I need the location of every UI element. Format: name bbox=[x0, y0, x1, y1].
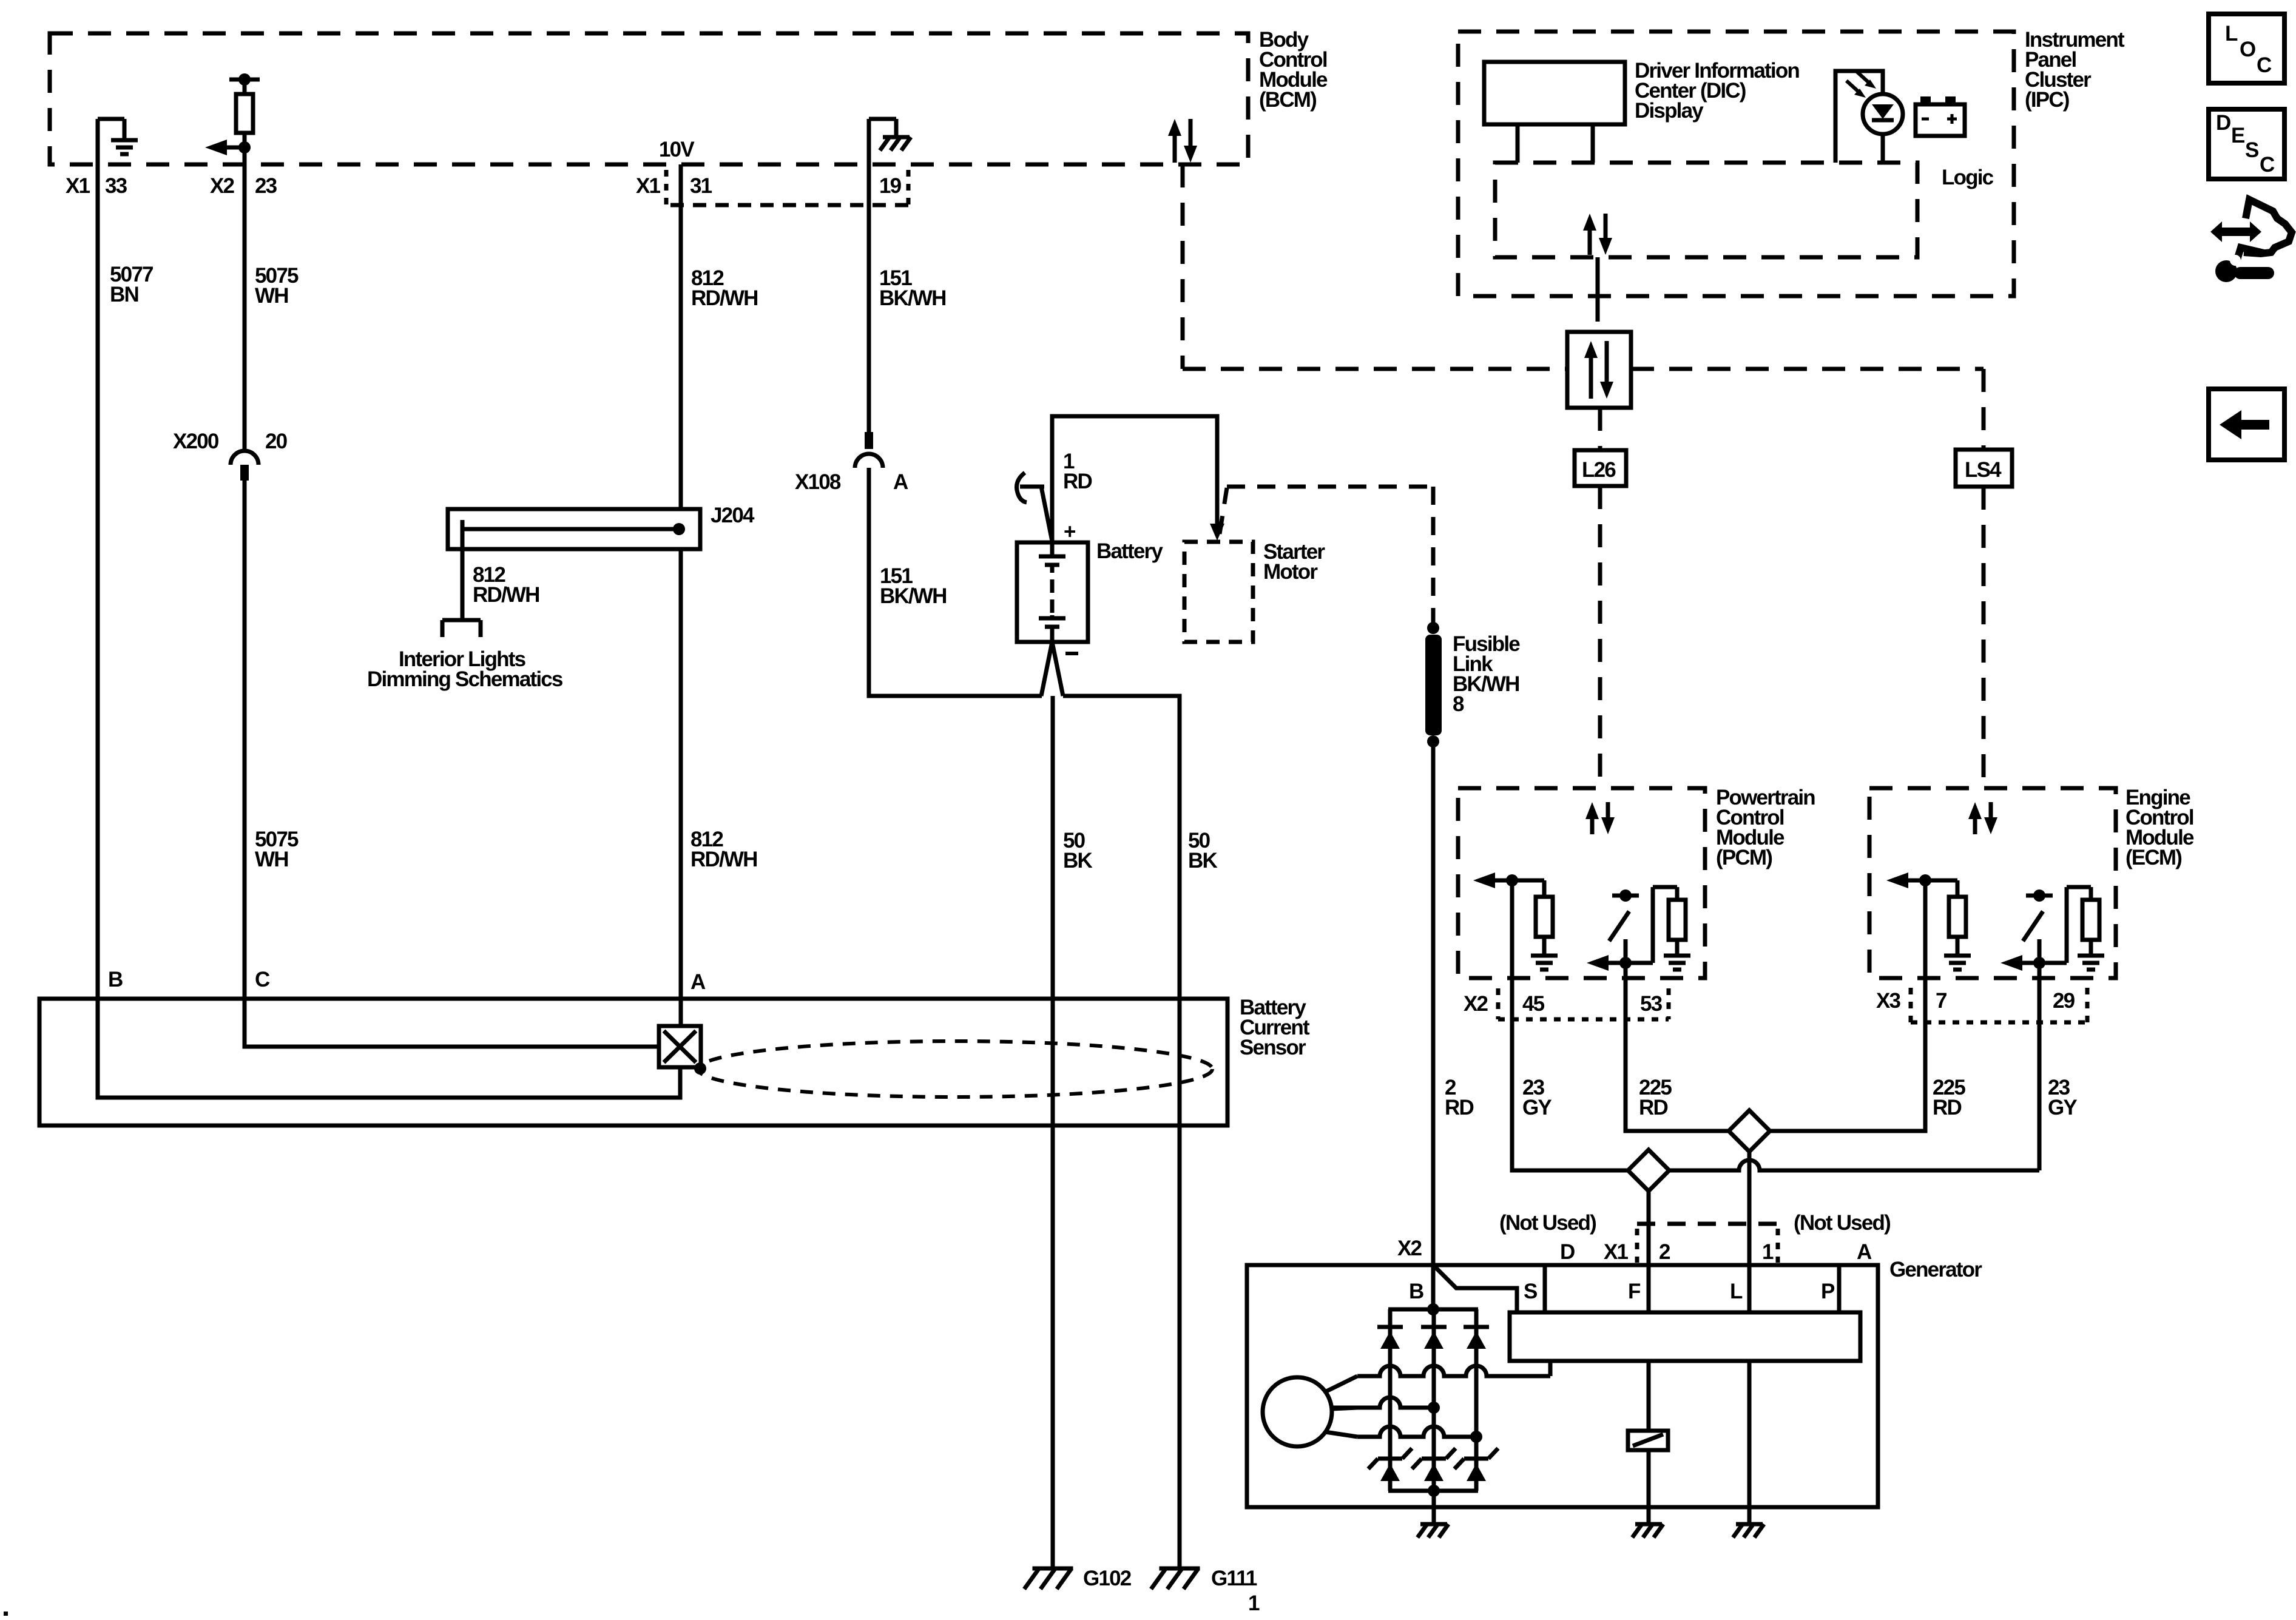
pin label 1 bbox=[1762, 1240, 1774, 1264]
Powertrain Control Module (PCM) dashed outline bbox=[1458, 788, 1705, 978]
svg-text:D: D bbox=[2216, 111, 2230, 135]
svg-text:B: B bbox=[108, 968, 123, 991]
wire 23 GY (ECM 29) bbox=[1667, 978, 2039, 1170]
PCM pin 45 driver (resistor to ground) bbox=[1473, 872, 1558, 978]
page corner mark bbox=[4, 1612, 8, 1616]
terminal P bbox=[1821, 1280, 1835, 1303]
pin label X3 bbox=[1876, 989, 1901, 1013]
svg-text:G102: G102 bbox=[1083, 1567, 1132, 1590]
wire 151 BK/WH (BCM pin19 to X108) bbox=[867, 164, 871, 432]
terminal F bbox=[1628, 1280, 1641, 1303]
sensor clamp dashed ellipse bbox=[698, 1041, 1212, 1097]
upper diode 3 bbox=[1464, 1325, 1489, 1329]
dashed wire L26 to PCM bbox=[1598, 486, 1602, 788]
svg-text:BN: BN bbox=[110, 283, 138, 306]
rotor bbox=[1263, 1377, 1332, 1446]
PCM pin 53 switch driver bbox=[1587, 887, 1690, 978]
label 50 BK left bbox=[1063, 829, 1092, 872]
svg-text:8: 8 bbox=[1453, 692, 1464, 716]
svg-text:(BCM): (BCM) bbox=[1259, 88, 1316, 112]
serial data gateway box bbox=[1567, 332, 1631, 408]
upper diode 2 bbox=[1421, 1325, 1447, 1329]
pin label 29 bbox=[2053, 989, 2075, 1013]
ground G111 bbox=[1151, 1568, 1200, 1589]
wire 151 BK/WH lower (X108 to battery negative) bbox=[869, 468, 1042, 696]
pin label X2 (generator B) bbox=[1397, 1237, 1422, 1260]
hall sensor element (box with X) bbox=[659, 1026, 706, 1075]
svg-text:E: E bbox=[2231, 124, 2244, 147]
IPC label bbox=[2025, 28, 2125, 112]
svg-text:(PCM): (PCM) bbox=[1716, 846, 1772, 869]
svg-text:RD/WH: RD/WH bbox=[691, 286, 758, 310]
label 50 BK right bbox=[1188, 829, 1217, 872]
internal B to S link bbox=[1433, 1265, 1517, 1312]
svg-text:19: 19 bbox=[879, 174, 902, 198]
svg-text:Generator: Generator bbox=[1889, 1258, 1982, 1281]
label 5077 BN bbox=[110, 263, 153, 306]
BCM internal ground at pin X1-33 bbox=[98, 119, 138, 166]
lower diode 3 bbox=[1464, 1457, 1488, 1461]
stator winding phase middle bbox=[1331, 1397, 1440, 1414]
svg-text:BK/WH: BK/WH bbox=[880, 584, 947, 608]
IPC serial data arrows bbox=[1583, 214, 1612, 255]
svg-text:WH: WH bbox=[255, 848, 288, 871]
svg-text:C: C bbox=[2257, 53, 2272, 77]
Generator label bbox=[1889, 1258, 1982, 1281]
lower diode 1 bbox=[1378, 1457, 1402, 1461]
label 812 RD/WH upper bbox=[691, 266, 758, 310]
label X200 bbox=[173, 430, 219, 453]
label G102 bbox=[1083, 1567, 1132, 1590]
svg-text:C: C bbox=[2260, 153, 2275, 177]
wire F to ground bbox=[1647, 1450, 1651, 1523]
dashed wire gateway to L26 bbox=[1598, 408, 1602, 450]
svg-text:A: A bbox=[1857, 1240, 1872, 1264]
wire F (lower diamond to generator F) bbox=[1647, 1189, 1651, 1312]
lower diode 2 bbox=[1422, 1457, 1446, 1461]
ECM serial data arrows bbox=[1968, 802, 1997, 834]
splice pack J204 bbox=[448, 509, 700, 549]
svg-text:WH: WH bbox=[255, 284, 288, 308]
battery negative clamp bbox=[1041, 642, 1063, 696]
svg-text:10V: 10V bbox=[659, 138, 695, 161]
svg-text:2: 2 bbox=[1659, 1240, 1670, 1264]
terminal S bbox=[1524, 1280, 1537, 1303]
svg-text:(Not Used): (Not Used) bbox=[1499, 1211, 1596, 1235]
label 225 RD (ECM) bbox=[1933, 1076, 1965, 1119]
upper diode 1 bbox=[1377, 1325, 1403, 1329]
generator L chassis ground bbox=[1736, 1522, 1763, 1527]
BCM internal chassis ground at pin 19 bbox=[869, 119, 911, 166]
svg-text:C: C bbox=[255, 968, 270, 991]
label 2 RD bbox=[1445, 1076, 1473, 1119]
BCM X1 connector dotted outline (pins 31/19) bbox=[666, 170, 908, 205]
svg-text:Logic: Logic bbox=[1942, 166, 1994, 189]
label - (battery negative) bbox=[1065, 652, 1078, 655]
pin label 19 bbox=[879, 174, 902, 198]
svg-text:A: A bbox=[690, 970, 706, 994]
label A (X108) bbox=[893, 470, 908, 494]
label 10V bbox=[659, 138, 695, 161]
svg-text:33: 33 bbox=[105, 174, 127, 198]
svg-text:+: + bbox=[1064, 520, 1076, 544]
DIC label bbox=[1635, 59, 1799, 123]
rotor lead middle bbox=[1332, 1408, 1357, 1409]
svg-text:31: 31 bbox=[690, 174, 712, 198]
svg-text:RD: RD bbox=[1445, 1096, 1473, 1119]
dashed wire LS4 to ECM bbox=[1982, 487, 1986, 788]
svg-text:1: 1 bbox=[1248, 1591, 1260, 1615]
wire stator to ground bbox=[1432, 1491, 1436, 1523]
wire L inside generator bbox=[1747, 1361, 1752, 1523]
svg-text:GY: GY bbox=[1522, 1096, 1551, 1119]
svg-text:L26: L26 bbox=[1582, 458, 1616, 482]
svg-text:X200: X200 bbox=[173, 430, 219, 453]
label 812 RD/WH lower bbox=[690, 828, 757, 871]
BCM serial data arrows bbox=[1168, 119, 1197, 163]
svg-text:RD: RD bbox=[1639, 1096, 1667, 1119]
harness tag L26 bbox=[1575, 450, 1626, 486]
Logic label bbox=[1942, 166, 1994, 189]
svg-text:X2: X2 bbox=[210, 174, 235, 198]
pin label 2 bbox=[1659, 1240, 1670, 1264]
svg-text:G111: G111 bbox=[1211, 1567, 1257, 1590]
svg-text:J204: J204 bbox=[711, 504, 755, 527]
svg-text:S: S bbox=[2245, 138, 2258, 162]
svg-text:29: 29 bbox=[2053, 989, 2075, 1013]
DESC letter C bbox=[2260, 153, 2275, 177]
BCM label bbox=[1259, 28, 1328, 112]
svg-text:A: A bbox=[893, 470, 908, 494]
wire F inside generator bbox=[1647, 1361, 1651, 1431]
battery symbol icon bbox=[1916, 96, 1965, 136]
pin label X1 (31) bbox=[636, 174, 661, 198]
svg-text:F: F bbox=[1628, 1280, 1641, 1303]
terminal divider P bbox=[1837, 1265, 1842, 1312]
wire 50 BK left (battery negative to G102) bbox=[1051, 696, 1055, 1567]
terminal label C bbox=[255, 968, 270, 991]
label G111 bbox=[1211, 1567, 1257, 1590]
DESC letter D bbox=[2216, 111, 2230, 135]
svg-text:1: 1 bbox=[1762, 1240, 1774, 1264]
Body Control Module (BCM) dashed outline bbox=[50, 33, 1248, 164]
svg-text:D: D bbox=[1560, 1240, 1575, 1264]
wire 225 RD (PCM 53) bbox=[1626, 978, 1731, 1131]
Battery Current Sensor box bbox=[39, 999, 1227, 1126]
splice diamond upper (L circuit) bbox=[1729, 1110, 1770, 1152]
pin label 53 bbox=[1640, 992, 1663, 1016]
label + (battery positive) bbox=[1064, 520, 1076, 544]
Driver Information Center (DIC) Display box bbox=[1484, 62, 1625, 163]
battery positive clamp bbox=[1017, 473, 1053, 541]
label 23 GY (ECM) bbox=[2048, 1076, 2077, 1119]
terminal label A bbox=[690, 970, 706, 994]
ECM pin 29 switch driver bbox=[2001, 887, 2104, 978]
DESC letter S bbox=[2245, 138, 2258, 162]
dashed serial data wire BCM to gateway bbox=[1183, 164, 1567, 369]
pin label X2 (PCM) bbox=[1464, 992, 1488, 1016]
svg-text:BK/WH: BK/WH bbox=[879, 286, 946, 310]
harness tag LS4 bbox=[1956, 450, 2012, 487]
label 225 RD (PCM) bbox=[1639, 1076, 1672, 1119]
splice diamond lower (F circuit) bbox=[1628, 1150, 1669, 1191]
rotor lead bottom bbox=[1325, 1432, 1357, 1437]
LOC letter O bbox=[2240, 38, 2255, 61]
svg-text:LS4: LS4 bbox=[1965, 458, 2002, 482]
PCM label bbox=[1716, 786, 1815, 869]
label (Not Used) left bbox=[1499, 1211, 1596, 1235]
Instrument Panel Cluster (IPC) dashed outline bbox=[1458, 32, 2014, 296]
label 5075 WH upper bbox=[255, 264, 299, 308]
L26 text bbox=[1582, 458, 1616, 482]
pin label 33 bbox=[105, 174, 127, 198]
rotor lead top bbox=[1325, 1376, 1357, 1392]
svg-text:45: 45 bbox=[1522, 992, 1545, 1016]
svg-text:Battery: Battery bbox=[1096, 539, 1163, 563]
PCM X2 connector dotted outline bbox=[1498, 988, 1669, 1019]
wire 50 BK right (battery negative to G111) bbox=[1063, 696, 1180, 1567]
svg-text:20: 20 bbox=[265, 430, 288, 453]
wire 812 RD/WH (BCM X1-31 to J204) bbox=[679, 164, 683, 509]
label Interior Lights Dimming Schematics bbox=[399, 647, 526, 671]
svg-text:L: L bbox=[2225, 22, 2238, 46]
pin label X2 bbox=[210, 174, 235, 198]
wire logic to IPC boundary bbox=[1596, 257, 1600, 332]
label J204 bbox=[711, 504, 755, 527]
label X108 bbox=[795, 470, 841, 494]
svg-text:X1: X1 bbox=[636, 174, 661, 198]
ECM pin 7 driver (resistor to ground) bbox=[1886, 872, 1971, 978]
svg-text:BK: BK bbox=[1188, 849, 1217, 872]
LS4 text bbox=[1965, 458, 2002, 482]
wire 5075 WH lower (X200 to sensor C) bbox=[245, 481, 659, 1047]
DESC icon box bbox=[2209, 109, 2284, 179]
label 23 GY (PCM) bbox=[1522, 1076, 1551, 1119]
diagnostic hand-wrench icon bbox=[2210, 200, 2292, 282]
wire L (upper diamond to generator L) bbox=[1747, 1149, 1752, 1312]
svg-text:BK: BK bbox=[1063, 849, 1092, 872]
svg-text:7: 7 bbox=[1936, 989, 1947, 1013]
label 151 BK/WH lower bbox=[880, 564, 947, 608]
svg-text:RD/WH: RD/WH bbox=[690, 848, 757, 871]
stator winding phase bottom bbox=[1357, 1426, 1482, 1443]
label 5075 WH lower bbox=[255, 828, 299, 871]
wire 5075 WH upper (BCM X2-23 to X200) bbox=[243, 164, 247, 450]
light arrows bbox=[1846, 72, 1876, 98]
rectifier column 1 bbox=[1388, 1309, 1393, 1491]
fusible link BK/WH 8 bbox=[1425, 622, 1442, 748]
Engine Control Module (ECM) dashed outline bbox=[1869, 788, 2116, 978]
svg-text:Dimming Schematics: Dimming Schematics bbox=[367, 667, 563, 691]
svg-text:O: O bbox=[2240, 38, 2255, 61]
svg-text:L: L bbox=[1730, 1280, 1743, 1303]
terminal B bbox=[1409, 1280, 1423, 1303]
svg-text:RD: RD bbox=[1933, 1096, 1961, 1119]
svg-text:X2: X2 bbox=[1397, 1237, 1422, 1260]
svg-text:X3: X3 bbox=[1876, 989, 1901, 1013]
rectifier top bus bbox=[1388, 1308, 1478, 1312]
Starter Motor label bbox=[1263, 540, 1325, 584]
rectifier column 2 bbox=[1432, 1309, 1436, 1491]
BCM internal resistor with sense arrow at pin X2-23 bbox=[205, 73, 260, 166]
pin label X1 (generator) bbox=[1604, 1240, 1629, 1264]
Generator box bbox=[1247, 1265, 1878, 1507]
pin label D bbox=[1560, 1240, 1575, 1264]
regulator sense tap bbox=[1548, 1361, 1553, 1376]
Starter Motor dashed box bbox=[1184, 542, 1253, 642]
svg-text:GY: GY bbox=[2048, 1096, 2077, 1119]
terminal label B bbox=[108, 968, 123, 991]
pin label A (generator) bbox=[1857, 1240, 1872, 1264]
wire 5077 BN (BCM X1-33 to sensor B) bbox=[98, 164, 680, 1098]
label 151 BK/WH upper bbox=[879, 266, 946, 310]
stator winding phase top bbox=[1357, 1361, 1550, 1376]
Fusible Link label bbox=[1453, 632, 1520, 716]
label 20 bbox=[265, 430, 288, 453]
svg-text:(ECM): (ECM) bbox=[2125, 846, 2181, 869]
svg-text:Motor: Motor bbox=[1263, 560, 1318, 584]
svg-text:X1: X1 bbox=[1604, 1240, 1629, 1264]
PCM serial data arrows bbox=[1585, 802, 1615, 834]
field coil symbol bbox=[1628, 1431, 1668, 1450]
svg-text:(Not Used): (Not Used) bbox=[1794, 1211, 1890, 1235]
label 1 RD bbox=[1063, 450, 1092, 493]
generator F chassis ground bbox=[1635, 1522, 1662, 1527]
svg-text:(IPC): (IPC) bbox=[2025, 88, 2069, 112]
charge indicator photo-LED bbox=[1835, 71, 1903, 163]
dashed serial data wire gateway to LS4 corner bbox=[1631, 369, 1984, 450]
arrow into starter motor bbox=[1210, 524, 1224, 541]
LOC letter L bbox=[2225, 22, 2238, 46]
LOC icon box bbox=[2209, 14, 2284, 83]
svg-text:S: S bbox=[1524, 1280, 1537, 1303]
label Battery bbox=[1096, 539, 1163, 563]
rectifier column 3 bbox=[1474, 1309, 1479, 1491]
svg-text:B: B bbox=[1409, 1280, 1423, 1303]
svg-text:Display: Display bbox=[1635, 99, 1704, 123]
IPC logic dashed box bbox=[1495, 163, 1917, 257]
svg-text:RD/WH: RD/WH bbox=[473, 583, 539, 607]
pin label X1 bbox=[66, 174, 90, 198]
wire 23 GY (PCM 45) bbox=[1512, 978, 1630, 1170]
terminal L bbox=[1730, 1280, 1743, 1303]
pin label 7 bbox=[1936, 989, 1947, 1013]
ECM label bbox=[2125, 786, 2194, 869]
svg-text:53: 53 bbox=[1640, 992, 1663, 1016]
label (Not Used) right bbox=[1794, 1211, 1890, 1235]
connector X200 pin 20 bbox=[231, 451, 258, 481]
svg-text:23: 23 bbox=[255, 174, 277, 198]
ECM X3 connector dotted outline bbox=[1911, 988, 2087, 1022]
wire 1 RD (battery positive feed) bbox=[1052, 416, 1217, 542]
svg-text:X2: X2 bbox=[1464, 992, 1488, 1016]
label Dimming Schematics bbox=[367, 667, 563, 691]
battery bbox=[1017, 542, 1088, 642]
svg-text:X1: X1 bbox=[66, 174, 90, 198]
rectifier bottom bus bbox=[1388, 1485, 1478, 1497]
svg-text:P: P bbox=[1821, 1280, 1835, 1303]
svg-text:RD: RD bbox=[1063, 470, 1092, 493]
DESC letter E bbox=[2231, 124, 2244, 147]
wire 2 RD (fusible link to generator B) bbox=[1431, 741, 1436, 1309]
svg-text:Sensor: Sensor bbox=[1240, 1036, 1306, 1059]
wire generator B to rectifier bus bbox=[1427, 1265, 1439, 1315]
voltage regulator box bbox=[1510, 1312, 1860, 1361]
wire 812 RD/WH branch to interior lights bbox=[442, 529, 481, 637]
LOC letter C bbox=[2257, 53, 2272, 77]
gateway arrows bbox=[1584, 341, 1613, 399]
pin label 45 bbox=[1522, 992, 1545, 1016]
pin label 31 bbox=[690, 174, 712, 198]
label 812 RD/WH branch bbox=[473, 563, 539, 607]
ground G102 bbox=[1024, 1568, 1073, 1589]
pin label 23 bbox=[255, 174, 277, 198]
svg-text:X108: X108 bbox=[795, 470, 841, 494]
wire 225 RD (ECM 7) bbox=[1768, 978, 1925, 1131]
back arrow icon box bbox=[2209, 389, 2284, 460]
generator X1 connector dashed line bbox=[1637, 1224, 1778, 1263]
generator stator chassis ground bbox=[1420, 1522, 1447, 1527]
dashed wire starter motor to fusible link bbox=[1220, 487, 1433, 625]
connector X108 pin A bbox=[855, 432, 883, 468]
Battery Current Sensor label bbox=[1240, 996, 1310, 1059]
terminal divider S bbox=[1543, 1265, 1547, 1312]
wire 812 RD/WH lower (J204 to sensor A) bbox=[679, 549, 683, 1027]
